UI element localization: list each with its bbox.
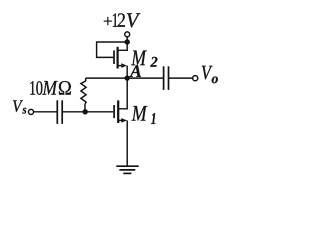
transistor M2 gate bar [113, 50, 115, 64]
wire terminal to junction [126, 37, 128, 42]
ground symbol [116, 165, 138, 167]
transistor M1 gate bar [113, 105, 115, 118]
resistor 10M zigzag [81, 78, 86, 112]
transistor M1 channel bar [117, 100, 119, 123]
wire M1 drain lead up to node A [118, 78, 127, 109]
label Vs [13, 100, 23, 112]
wire to Vo terminal [169, 77, 193, 79]
junction dot below +12V terminal [125, 39, 130, 44]
wire M2 source down to node A [126, 66, 128, 79]
wire M2 drain lead [118, 42, 128, 50]
node +12V supply terminal [125, 32, 130, 37]
wire gate lead of M1 [85, 111, 113, 113]
capacitor output right plate [168, 66, 170, 90]
label 10M-ohm [30, 81, 35, 95]
wire gate-to-drain loop of M2 [97, 42, 128, 57]
capacitor input right plate [61, 100, 63, 124]
wire M2 source lead with arrowhead [118, 65, 123, 67]
capacitor output left plate [163, 66, 165, 90]
node Vs input terminal [28, 109, 33, 114]
wire capacitor to gate junction [62, 111, 85, 113]
label M1 [132, 106, 148, 121]
node Vo output terminal [193, 76, 198, 81]
label node A [129, 65, 141, 77]
capacitor input left plate [56, 100, 58, 124]
transistor M2 channel bar [116, 47, 118, 69]
label M2 [131, 51, 147, 66]
node A junction dot [125, 75, 130, 80]
label +12V [104, 17, 112, 25]
junction dot M1 gate node [83, 109, 88, 114]
wire Vs to input capacitor [34, 111, 57, 113]
label Vo [202, 66, 213, 80]
wire M1 source down to ground [126, 120, 128, 166]
wire M1 source lead with arrowhead [118, 119, 122, 121]
wire node A horizontal [86, 77, 164, 79]
